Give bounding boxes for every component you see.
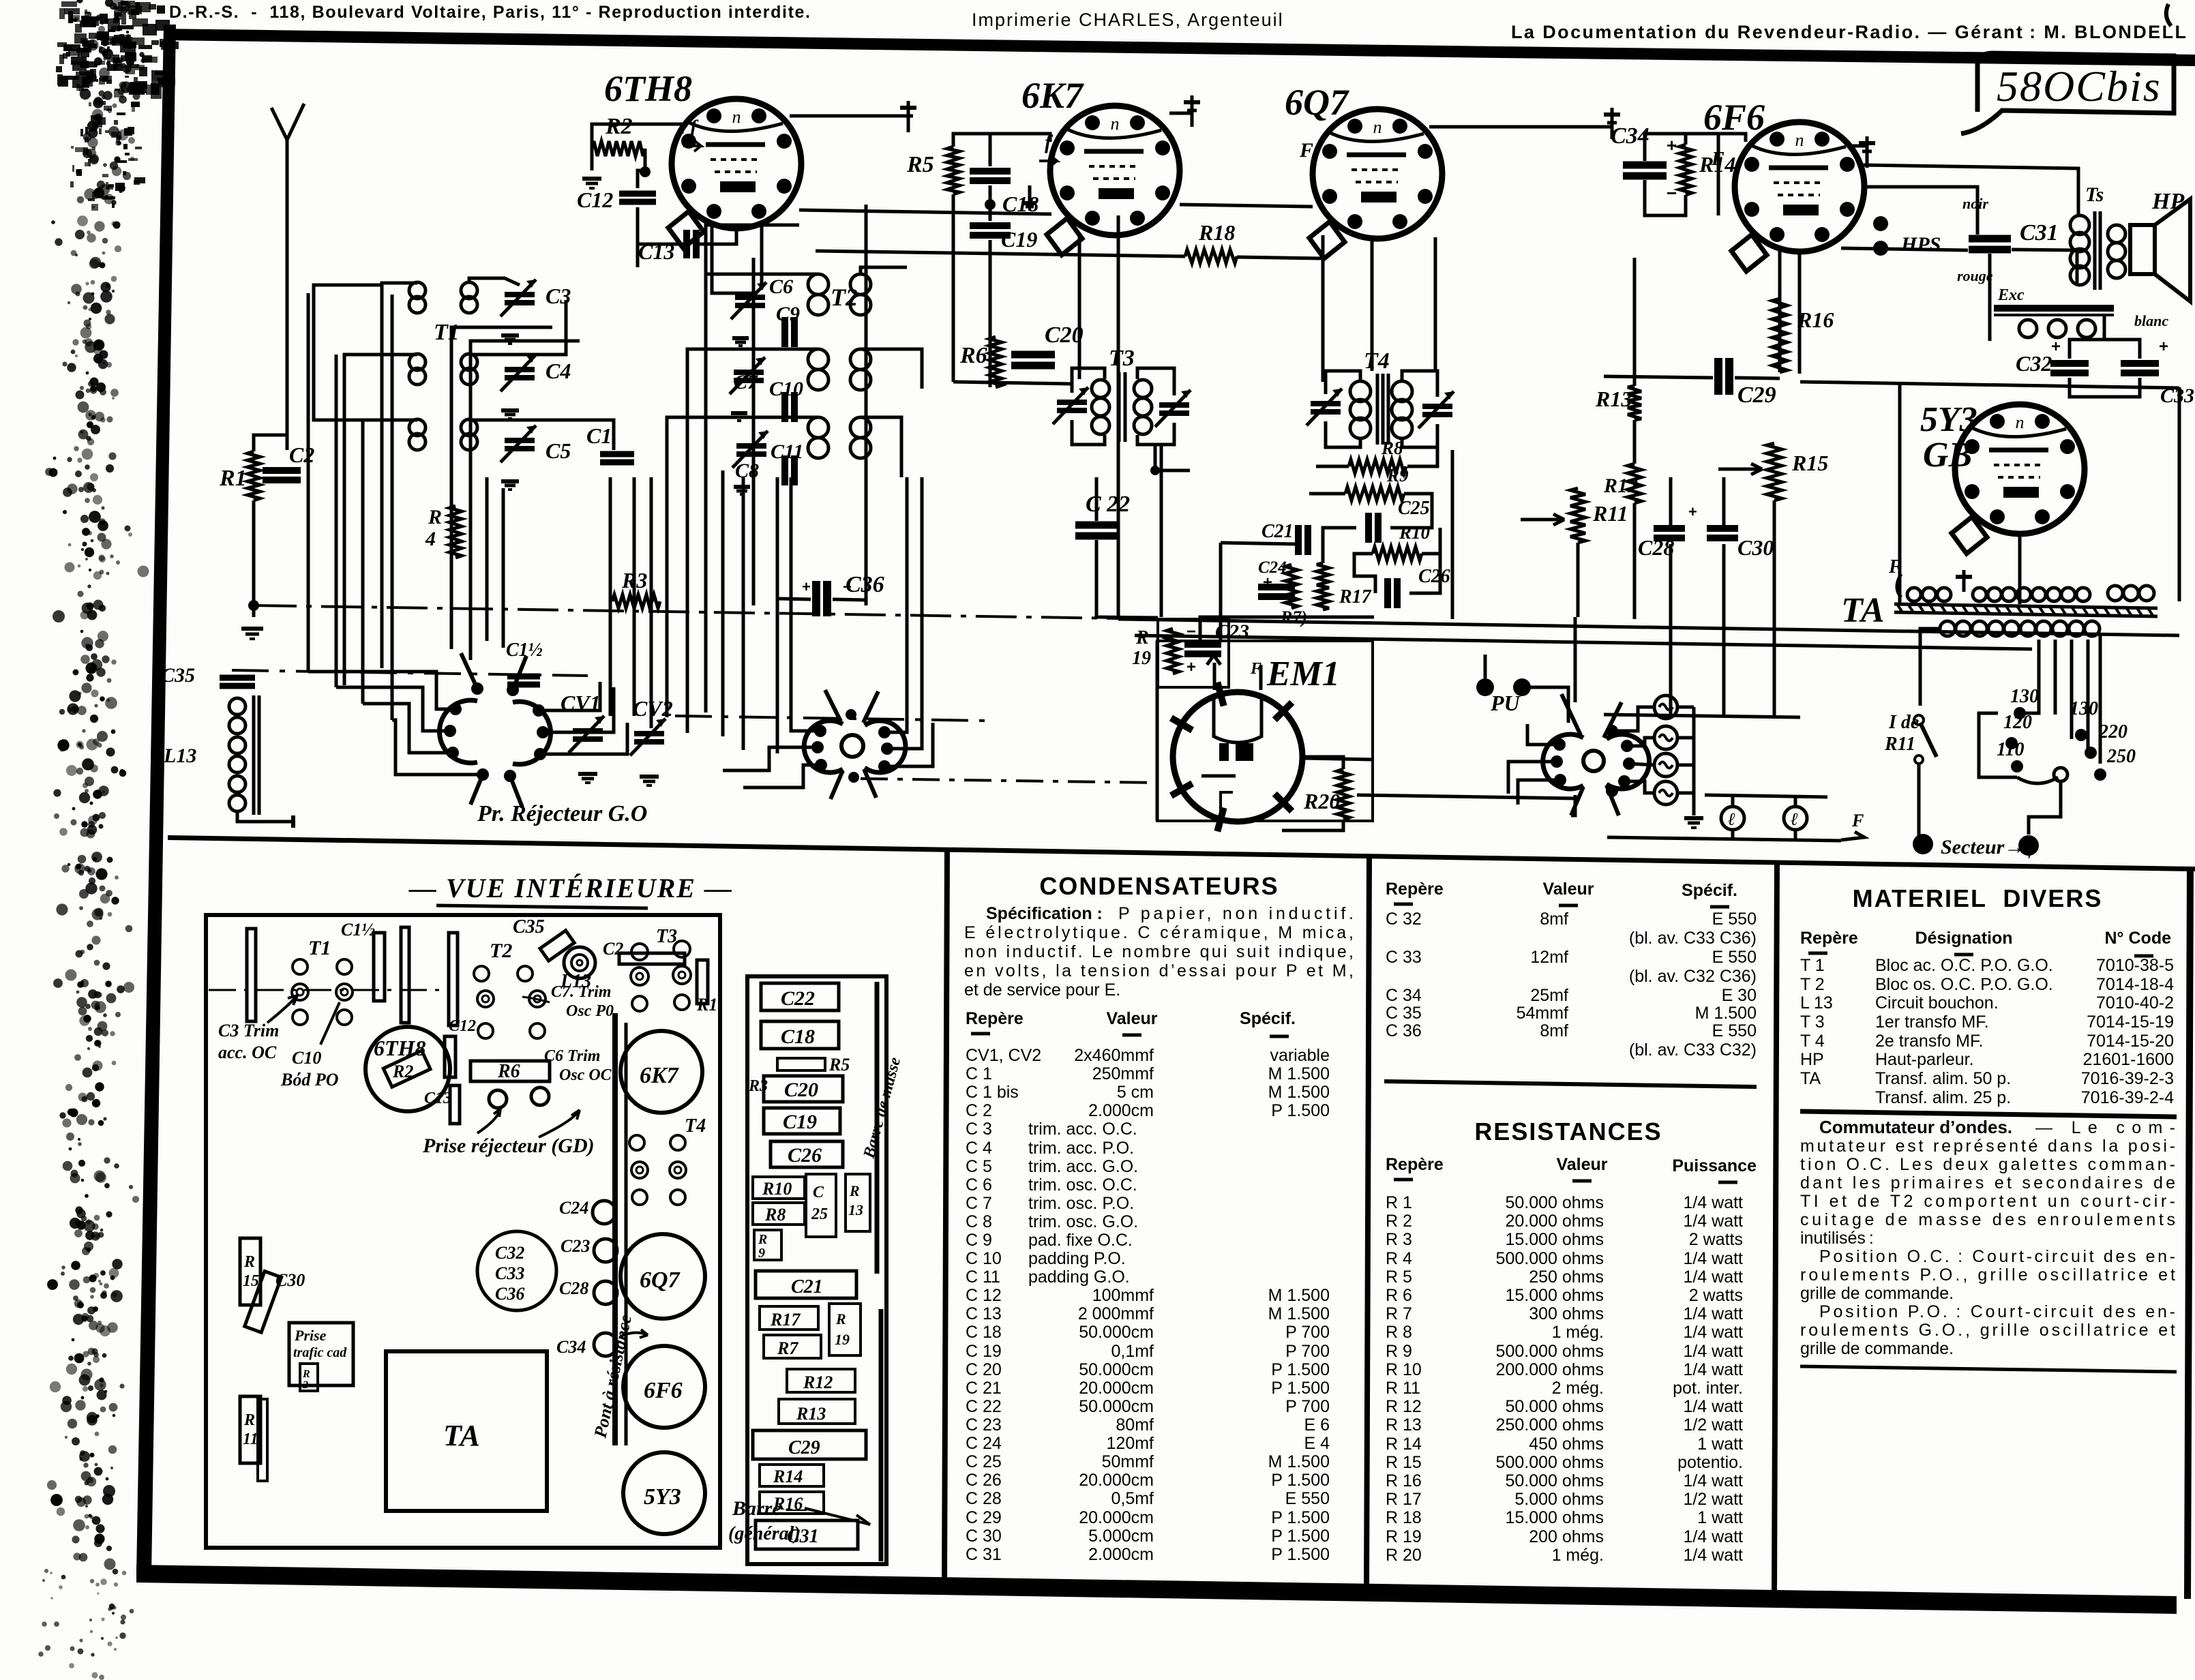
- trimmer C4: [505, 367, 535, 372]
- svg-text:C 13: C 13: [966, 1304, 1002, 1323]
- svg-text:6F6: 6F6: [644, 1378, 683, 1403]
- capacitor C12: [619, 191, 656, 197]
- svg-text:C 31: C 31: [966, 1545, 1002, 1564]
- wire 5Y3 to TA: [2018, 534, 2022, 604]
- svg-text:1/4 watt: 1/4 watt: [1683, 1323, 1743, 1342]
- svg-text:R 11: R 11: [1386, 1379, 1420, 1398]
- resistor R15: [1767, 443, 1782, 500]
- capacitor C10: [781, 392, 788, 422]
- svg-text:15: 15: [243, 1272, 259, 1290]
- scan corner blob: [80, 48, 89, 57]
- svg-text:C4: C4: [546, 359, 571, 383]
- svg-text:M 1.500: M 1.500: [1695, 1004, 1757, 1023]
- svg-text:C 22: C 22: [1086, 492, 1130, 517]
- svg-text:R18: R18: [1198, 220, 1235, 245]
- trimmer C8: [736, 443, 766, 449]
- svg-text:P 1.500: P 1.500: [1271, 1545, 1330, 1564]
- svg-text:500.000 ohms: 500.000 ohms: [1496, 1342, 1604, 1361]
- wire long row B: [816, 251, 1185, 256]
- label R15 chassis: [240, 1238, 260, 1305]
- svg-text:Prise: Prise: [294, 1327, 327, 1344]
- svg-text:+: +: [1186, 658, 1196, 676]
- wave-change switch wafers: [439, 700, 477, 763]
- wire C13 right: [697, 230, 736, 244]
- svg-text:R 12: R 12: [1386, 1397, 1422, 1416]
- svg-text:Repère: Repère: [966, 1009, 1024, 1028]
- svg-text:Désignation: Désignation: [1915, 929, 2012, 948]
- ground under C5: [501, 479, 519, 483]
- tube EM1 (magic eye): [1173, 692, 1302, 822]
- wire 6TH8 pin drops: [711, 225, 714, 267]
- label C13 chassis: [450, 1085, 460, 1124]
- svg-text:PU: PU: [1490, 691, 1521, 715]
- svg-text:58OCbis: 58OCbis: [1997, 62, 2162, 110]
- panel box R9: [754, 1230, 781, 1260]
- svg-text:grille de commande.: grille de commande.: [1800, 1339, 1954, 1358]
- svg-text:— VUE INTÉRIEURE —: — VUE INTÉRIEURE —: [408, 873, 733, 903]
- resistor R7: [1285, 565, 1298, 608]
- svg-text:8mf: 8mf: [1540, 1021, 1568, 1040]
- svg-text:6F6: 6F6: [1703, 97, 1765, 138]
- T2 holes: [474, 966, 489, 981]
- svg-text:500.000 ohms: 500.000 ohms: [1496, 1453, 1604, 1472]
- svg-text:6K7: 6K7: [640, 1063, 680, 1088]
- svg-text:12mf: 12mf: [1530, 948, 1568, 967]
- svg-text:M 1.500: M 1.500: [1268, 1452, 1330, 1471]
- panel box C20: [764, 1076, 843, 1102]
- svg-text:L 13: L 13: [1800, 993, 1833, 1012]
- panel box C29: [753, 1430, 866, 1459]
- svg-text:19: 19: [835, 1331, 850, 1348]
- svg-text:7010-40-2: 7010-40-2: [2096, 993, 2174, 1012]
- capacitor C34: [1623, 162, 1667, 169]
- oscillator switch wafer 2: [841, 735, 863, 757]
- svg-text:R: R: [835, 1310, 846, 1327]
- svg-text:ℓ: ℓ: [1728, 809, 1735, 829]
- resistor R20: [1337, 769, 1349, 820]
- svg-text:C29: C29: [1737, 382, 1776, 408]
- svg-text:R 20: R 20: [1386, 1546, 1422, 1565]
- svg-text:Spécification :: Spécification :: [986, 904, 1103, 923]
- svg-text:Imprimerie CHARLES, Argenteuil: Imprimerie CHARLES, Argenteuil: [972, 10, 1284, 30]
- svg-text:R 13: R 13: [1386, 1415, 1422, 1435]
- svg-text:C24: C24: [559, 1198, 588, 1218]
- svg-text:D.-R.-S. - 118, Boulevard Vo: D.-R.-S. - 118, Boulevard Voltaire, Pari…: [169, 3, 810, 22]
- svg-text:R7: R7: [777, 1338, 798, 1358]
- wire C19 down bus: [989, 240, 992, 387]
- svg-text:C35: C35: [161, 664, 195, 687]
- wire C20/T3 bottom bus: [953, 382, 1072, 384]
- coil L13 (circuit bouchon): [229, 698, 245, 715]
- capacitor C24: [1258, 584, 1295, 590]
- label R11 chassis: [240, 1396, 260, 1463]
- wire R5 bottom: [952, 194, 955, 382]
- svg-text:cuitage de masse des enrouleme: cuitage de masse des enroulements: [1800, 1210, 2175, 1229]
- svg-text:R12: R12: [803, 1372, 833, 1392]
- capacitor C33: [2121, 360, 2159, 367]
- resistor R6 chassis: [471, 1061, 550, 1081]
- svg-text:1/2 watt: 1/2 watt: [1683, 1415, 1743, 1435]
- svg-text:2 watts: 2 watts: [1689, 1286, 1743, 1305]
- capacitor C11: [781, 455, 788, 485]
- svg-text:rouge: rouge: [1957, 267, 1993, 284]
- capacitor C25: [1365, 513, 1372, 543]
- wires C34/R14: [1645, 134, 1686, 161]
- svg-text:R: R: [428, 506, 442, 528]
- svg-text:C 8: C 8: [966, 1212, 992, 1231]
- svg-text:tion O.C. Les deux galettes co: tion O.C. Les deux galettes comman-: [1800, 1155, 2175, 1174]
- svg-text:450 ohms: 450 ohms: [1529, 1435, 1604, 1454]
- capacitor C32: [2050, 360, 2089, 367]
- svg-text:C10: C10: [769, 378, 803, 400]
- wire C21 to EM1: [1221, 543, 1297, 544]
- svg-text:80mf: 80mf: [1116, 1415, 1154, 1435]
- svg-text:1 watt: 1 watt: [1697, 1508, 1743, 1527]
- AC symbol 4: [1654, 781, 1677, 805]
- svg-text:EM1: EM1: [1266, 655, 1340, 693]
- svg-text:M 1.500: M 1.500: [1268, 1304, 1330, 1323]
- svg-text:C10: C10: [292, 1048, 321, 1068]
- wire R1 bottom to ground: [252, 500, 256, 617]
- svg-text:R 6: R 6: [1386, 1286, 1412, 1305]
- tube 6F6 chassis: [623, 1346, 705, 1428]
- svg-text:R 4: R 4: [1386, 1249, 1412, 1268]
- model box 580C bis: [1961, 53, 2174, 134]
- scan speckle left margin: [102, 507, 105, 510]
- capacitor C28: [1654, 525, 1685, 532]
- wire L13 bottom: [237, 811, 293, 822]
- svg-text:C21: C21: [791, 1276, 823, 1297]
- capacitor C29: [1714, 358, 1722, 395]
- wire PU row: [1357, 795, 1575, 798]
- svg-text:54mmf: 54mmf: [1517, 1004, 1568, 1023]
- svg-text:C 29: C 29: [966, 1508, 1002, 1527]
- resistor R6: [989, 337, 1002, 387]
- svg-text:C 28: C 28: [966, 1489, 1002, 1508]
- wire right edge drop: [2178, 387, 2181, 601]
- svg-text:n: n: [2016, 412, 2025, 432]
- frame left border: [136, 25, 176, 1575]
- bus line B+ lower: [1135, 635, 2032, 649]
- svg-text:Pr. Réjecteur G.O: Pr. Réjecteur G.O: [477, 801, 647, 826]
- wire 6TH8 to 6K7 grid: [799, 210, 1051, 214]
- capacitor C30: [1707, 525, 1738, 532]
- svg-text:TA: TA: [443, 1419, 480, 1452]
- svg-text:Bloc ac. O.C. P.O. G.O.: Bloc ac. O.C. P.O. G.O.: [1875, 956, 2053, 975]
- prise rejecteur holes: [489, 1090, 507, 1108]
- dashed bus low left: [232, 670, 588, 676]
- svg-text:TA: TA: [1841, 591, 1885, 630]
- svg-text:15.000 ohms: 15.000 ohms: [1505, 1230, 1604, 1249]
- svg-text:C 4: C 4: [966, 1139, 992, 1158]
- svg-text:Barre —: Barre —: [732, 1497, 807, 1520]
- capacitor C19: [970, 222, 1011, 229]
- svg-text:R10: R10: [762, 1179, 792, 1199]
- svg-text:C28: C28: [559, 1278, 588, 1298]
- trimmer C5: [505, 438, 535, 443]
- svg-text:T2: T2: [490, 940, 512, 962]
- barre generale bar: [879, 1309, 884, 1561]
- svg-text:1/4 watt: 1/4 watt: [1683, 1342, 1743, 1361]
- svg-text:T 4: T 4: [1800, 1032, 1825, 1051]
- svg-text:potentio.: potentio.: [1677, 1453, 1743, 1472]
- svg-text:250mmf: 250mmf: [1092, 1064, 1154, 1083]
- rule below commutateur: [1800, 1366, 2177, 1372]
- svg-text:0,1mf: 0,1mf: [1111, 1342, 1154, 1361]
- variable capacitor CV2: [634, 731, 664, 736]
- panel box R19: [829, 1304, 861, 1355]
- svg-text:Repère: Repère: [1386, 880, 1444, 899]
- svg-text:C35: C35: [513, 916, 545, 937]
- svg-text:R17: R17: [1339, 586, 1372, 607]
- prise trafic box: [289, 1323, 353, 1385]
- wire C22 to R19 box: [1096, 617, 1158, 618]
- label Secteur: [1913, 834, 1933, 854]
- tube 6K7 chassis: [621, 1031, 702, 1113]
- svg-text:R: R: [849, 1182, 860, 1199]
- TA HT winding: [1973, 588, 1986, 601]
- T1 holes: [293, 959, 308, 974]
- svg-text:R: R: [243, 1411, 255, 1429]
- wire R5/C18 top: [953, 134, 990, 166]
- svg-text:110: 110: [1997, 739, 2024, 760]
- svg-text:Puissance: Puissance: [1672, 1156, 1757, 1175]
- svg-text:1/4 watt: 1/4 watt: [1683, 1360, 1743, 1379]
- svg-text:R 19: R 19: [1386, 1527, 1422, 1546]
- svg-text:CV1, CV2: CV1, CV2: [966, 1046, 1041, 1065]
- right page border: [2187, 868, 2190, 1599]
- svg-text:C3 Trim: C3 Trim: [218, 1021, 279, 1040]
- svg-text:(général): (général): [728, 1523, 801, 1544]
- bus wires mid: [609, 477, 612, 716]
- svg-text:C23: C23: [561, 1236, 590, 1256]
- panel box R10: [753, 1177, 805, 1199]
- svg-text:(bl. av. C33 C32): (bl. av. C33 C32): [1629, 1040, 1757, 1060]
- svg-text:F: F: [1851, 811, 1864, 830]
- svg-text:P 700: P 700: [1285, 1323, 1330, 1342]
- wire R2 right to C12: [638, 149, 645, 188]
- svg-text:−: −: [1667, 183, 1677, 203]
- junction R2 C12: [640, 166, 651, 177]
- capacitor C1bis: [507, 674, 540, 680]
- svg-text:13: 13: [848, 1201, 863, 1218]
- svg-text:R3: R3: [748, 1077, 768, 1095]
- svg-text:P 700: P 700: [1285, 1342, 1330, 1361]
- svg-text:P 1.500: P 1.500: [1271, 1527, 1330, 1546]
- svg-text:20.000cm: 20.000cm: [1079, 1471, 1154, 1490]
- tube 6Q7 (det/AF): [1313, 109, 1442, 239]
- svg-text:R5: R5: [906, 152, 934, 177]
- panel box C25: [806, 1174, 836, 1237]
- junction R1/AVC: [248, 600, 259, 611]
- wire bus y556 right: [1800, 382, 2179, 388]
- svg-text:trim. acc. O.C.: trim. acc. O.C.: [1028, 1120, 1137, 1139]
- svg-text:1/4 watt: 1/4 watt: [1683, 1249, 1743, 1268]
- svg-text:R2: R2: [392, 1062, 413, 1081]
- svg-text:R: R: [758, 1232, 767, 1247]
- svg-text:blanc: blanc: [2134, 312, 2168, 329]
- T1 loop wires: [382, 283, 417, 668]
- TA core: [1894, 604, 2157, 608]
- svg-text:P papier, non inductif.: P papier, non inductif.: [1118, 904, 1354, 923]
- transformer T1 windings: [409, 282, 425, 299]
- svg-text:E 4: E 4: [1304, 1434, 1330, 1453]
- wire T2 top frame: [706, 225, 799, 274]
- svg-text:R14: R14: [773, 1467, 803, 1486]
- svg-text:1/4 watt: 1/4 watt: [1683, 1212, 1743, 1231]
- svg-text:R 15: R 15: [1386, 1453, 1422, 1472]
- svg-text:Spécif.: Spécif.: [1682, 881, 1737, 900]
- wire C29 row: [1604, 376, 1713, 378]
- dash centerline: [209, 989, 450, 991]
- svg-text:F: F: [1299, 139, 1313, 162]
- trimmer C3: [505, 292, 535, 297]
- svg-text:15.000 ohms: 15.000 ohms: [1505, 1286, 1604, 1305]
- antenna: [271, 108, 287, 450]
- svg-text:C6 Trim: C6 Trim: [544, 1047, 600, 1065]
- ground under C4: [501, 408, 519, 412]
- capacitor C26: [1384, 578, 1391, 608]
- selector bracket: [1979, 713, 2017, 777]
- svg-text:250: 250: [2106, 746, 2136, 767]
- svg-text:P 1.500: P 1.500: [1271, 1101, 1330, 1120]
- panel box C31: [756, 1520, 858, 1549]
- svg-text:+: +: [1667, 135, 1677, 155]
- chassis outline: [206, 915, 720, 1548]
- wire EM1 top feed: [1200, 617, 1374, 646]
- bus verticals right: [1117, 215, 1120, 619]
- svg-text:n: n: [1373, 117, 1382, 137]
- svg-text:2 000mmf: 2 000mmf: [1078, 1304, 1154, 1323]
- transformer T4 secondary trimmer: [1422, 404, 1452, 409]
- tube 5Y3 (rectifier): [1955, 404, 2085, 534]
- svg-text:(bl. av. C33 C36): (bl. av. C33 C36): [1629, 929, 1757, 948]
- label C12 chassis: [445, 1036, 456, 1077]
- svg-text:15.000 ohms: 15.000 ohms: [1505, 1508, 1604, 1527]
- svg-text:25mf: 25mf: [1530, 986, 1568, 1005]
- transformer T2 windings: [808, 274, 828, 295]
- svg-text:R20: R20: [1303, 789, 1340, 813]
- resistor R11: [1570, 488, 1585, 543]
- svg-text:5 cm: 5 cm: [1117, 1083, 1154, 1102]
- capacitor C31: [1969, 235, 2011, 243]
- wire C22 vert: [1095, 477, 1099, 521]
- svg-text:50.000cm: 50.000cm: [1079, 1397, 1154, 1416]
- grid-cap ground 6K7: [1191, 95, 1194, 127]
- svg-text:C 12: C 12: [966, 1286, 1002, 1305]
- svg-text:C8: C8: [735, 460, 759, 482]
- svg-text:Prise réjecteur (GD): Prise réjecteur (GD): [422, 1135, 595, 1157]
- capacitor C35: [220, 675, 255, 681]
- T3 holes: [631, 944, 648, 960]
- svg-text:1 még.: 1 még.: [1552, 1323, 1604, 1342]
- rule above resistances: [1384, 1081, 1757, 1087]
- svg-text:120: 120: [2003, 712, 2032, 733]
- svg-text:T 1: T 1: [1800, 956, 1825, 975]
- svg-text:R 7: R 7: [1386, 1304, 1412, 1323]
- svg-text:1/2 watt: 1/2 watt: [1683, 1490, 1743, 1509]
- switch feed wires: [308, 672, 456, 709]
- svg-text:Circuit bouchon.: Circuit bouchon.: [1875, 993, 1999, 1012]
- svg-text:(bl. av. C32 C36): (bl. av. C32 C36): [1629, 967, 1757, 986]
- wafer2 feed wires: [791, 477, 820, 731]
- svg-text:R2: R2: [605, 114, 633, 139]
- svg-text:2 még.: 2 még.: [1552, 1379, 1604, 1398]
- wire EM1 row: [1304, 758, 1374, 760]
- svg-text:trim. osc. P.O.: trim. osc. P.O.: [1028, 1194, 1134, 1213]
- svg-text:P 1.500: P 1.500: [1271, 1471, 1330, 1490]
- svg-text:7014-15-20: 7014-15-20: [2087, 1032, 2174, 1051]
- svg-text:11: 11: [243, 1430, 258, 1448]
- svg-text:CV1: CV1: [561, 691, 601, 715]
- svg-text:Commutateur d’ondes.: Commutateur d’ondes.: [1819, 1117, 2012, 1137]
- svg-text:21601-1600: 21601-1600: [2083, 1050, 2174, 1069]
- tube 6TH8 chassis: [365, 1027, 450, 1111]
- wire selector to secteur: [2029, 781, 2061, 835]
- transformer T3 secondary trimmer: [1159, 402, 1189, 408]
- wire mesh under 6TH8: [450, 477, 453, 649]
- rotary switch galette: [1583, 751, 1604, 771]
- bar 3 mid: [449, 933, 458, 1025]
- svg-text:7016-39-2-4: 7016-39-2-4: [2081, 1088, 2174, 1107]
- svg-text:Spécif.: Spécif.: [1240, 1009, 1296, 1028]
- svg-text:T4: T4: [685, 1115, 706, 1137]
- svg-text:variable: variable: [1270, 1046, 1330, 1065]
- svg-text:R 2: R 2: [1386, 1212, 1412, 1231]
- junction C18/C19: [985, 199, 996, 210]
- capacitor C18: [970, 168, 1011, 175]
- C1bis bar: [374, 933, 385, 1001]
- wire HPS row: [1841, 248, 1968, 250]
- ground under CV2: [640, 775, 659, 779]
- resistor R17: [1317, 563, 1329, 610]
- capacitor C2: [263, 467, 301, 474]
- panel box R12: [787, 1369, 855, 1392]
- svg-text:6K7: 6K7: [1021, 75, 1084, 116]
- svg-text:E 550: E 550: [1712, 1021, 1757, 1040]
- svg-text:R 10: R 10: [1386, 1360, 1422, 1379]
- panel box C21: [756, 1271, 856, 1298]
- svg-text:C 10: C 10: [966, 1249, 1002, 1268]
- svg-text:C 1 bis: C 1 bis: [966, 1083, 1019, 1102]
- chassis mid bar: [612, 1013, 618, 1445]
- svg-text:R 8: R 8: [1386, 1323, 1412, 1342]
- svg-text:R16: R16: [1797, 307, 1834, 332]
- svg-text:C 5: C 5: [966, 1157, 992, 1176]
- svg-text:T1: T1: [434, 320, 460, 345]
- svg-text:trim. acc. P.O.: trim. acc. P.O.: [1028, 1139, 1134, 1158]
- svg-text:C36: C36: [495, 1284, 524, 1304]
- svg-text:C1½: C1½: [506, 640, 543, 661]
- AVC dashed bus: [256, 605, 1118, 618]
- svg-text:pad. fixe O.C.: pad. fixe O.C.: [1028, 1231, 1133, 1250]
- tube 6F6 (output): [1735, 122, 1864, 252]
- svg-text:C 22: C 22: [966, 1397, 1002, 1416]
- svg-text:T 2: T 2: [1800, 975, 1825, 994]
- svg-text:HP: HP: [1800, 1050, 1824, 1069]
- svg-text:R 3: R 3: [1386, 1230, 1412, 1249]
- cap trio C32 C33 C36: [477, 1231, 556, 1310]
- svg-text:C22: C22: [781, 987, 815, 1010]
- svg-text:C 36: C 36: [1386, 1021, 1422, 1040]
- svg-text:C1: C1: [586, 423, 612, 448]
- svg-text:1/4 watt: 1/4 watt: [1683, 1527, 1743, 1546]
- wire 6TH8 top to ground stub: [790, 115, 908, 118]
- svg-text:25: 25: [811, 1205, 828, 1223]
- resistor R8: [1349, 460, 1406, 473]
- svg-text:L13: L13: [163, 745, 196, 767]
- svg-text:1/4 watt: 1/4 watt: [1683, 1471, 1743, 1490]
